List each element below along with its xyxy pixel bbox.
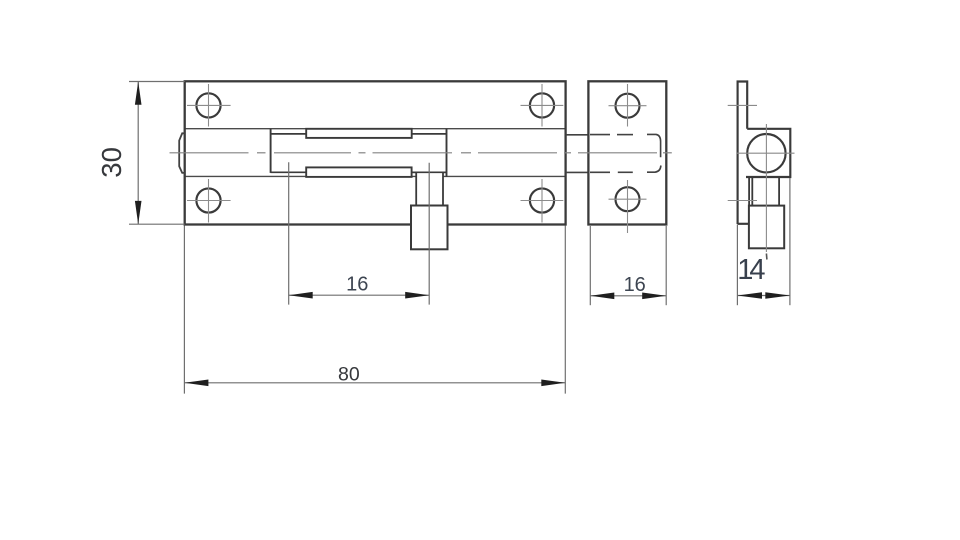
svg-text:16: 16 bbox=[624, 274, 646, 296]
svg-text:80: 80 bbox=[338, 363, 360, 385]
svg-text:16: 16 bbox=[346, 274, 368, 296]
svg-text:30: 30 bbox=[96, 147, 127, 178]
svg-text:14: 14 bbox=[737, 254, 765, 286]
